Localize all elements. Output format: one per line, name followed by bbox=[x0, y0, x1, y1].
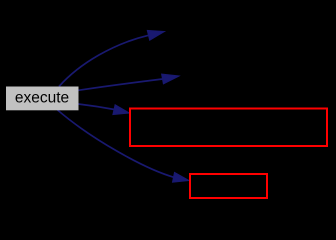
node execute (current, grey fill) bbox=[6, 87, 79, 111]
arrowhead edge3 bbox=[113, 105, 129, 115]
arrowhead edge4 bbox=[173, 172, 190, 182]
node small red box (truncated node) bbox=[190, 174, 267, 198]
wire edge3 execute to large red node bbox=[78, 104, 114, 110]
wire edge2 execute to second node bbox=[78, 79, 162, 90]
wire edge4 execute to small red node bbox=[58, 110, 175, 177]
svg-text:execute: execute bbox=[15, 90, 69, 107]
node large red box (truncated node) bbox=[130, 109, 327, 147]
arrowhead edge2 bbox=[162, 74, 179, 84]
arrowhead edge1 bbox=[147, 30, 164, 40]
wire edge1 execute to top node bbox=[59, 35, 149, 86]
